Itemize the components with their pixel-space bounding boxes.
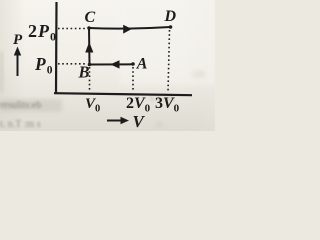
svg-text:. si:.: . si:. [152, 120, 166, 129]
point D [169, 25, 173, 29]
svg-text:rrrsulits:eb: rrrsulits:eb [0, 100, 41, 111]
arrowhead right on CD [123, 25, 132, 34]
dotted line A down to 2V0 [132, 67, 134, 92]
point B [88, 63, 92, 67]
svg-text:V: V [133, 112, 146, 131]
dotted line D down to 3V0 [168, 30, 170, 92]
P axis little arrow [14, 47, 21, 77]
bleed-through smudge bottom-left line 1 [0, 99, 62, 112]
arrowhead left on AB [110, 60, 119, 68]
point A [131, 62, 135, 66]
dotted line 2P0 to C [58, 28, 86, 30]
svg-text:t. n.T :m s: t. n.T :m s [0, 119, 41, 130]
paper background [0, 0, 215, 131]
svg-text:P: P [13, 32, 23, 48]
V axis (horizontal) [54, 93, 192, 95]
segment A to B [90, 63, 134, 65]
svg-text:A: A [136, 56, 148, 73]
arrowhead up on BC [85, 42, 93, 53]
svg-text:D: D [164, 8, 177, 25]
segment C to D [89, 27, 171, 29]
V axis little arrow [107, 117, 129, 124]
svg-text:C: C [85, 9, 96, 26]
P axis (vertical) [55, 2, 58, 94]
segment B to C [88, 28, 91, 65]
dotted line P0 to B [58, 63, 86, 65]
point C [87, 26, 91, 30]
svg-text:il:R: il:R [193, 70, 206, 79]
bleed-through smudge left edge [0, 52, 3, 92]
svg-text:B: B [78, 63, 90, 82]
dotted line B down to V0 [89, 67, 91, 92]
